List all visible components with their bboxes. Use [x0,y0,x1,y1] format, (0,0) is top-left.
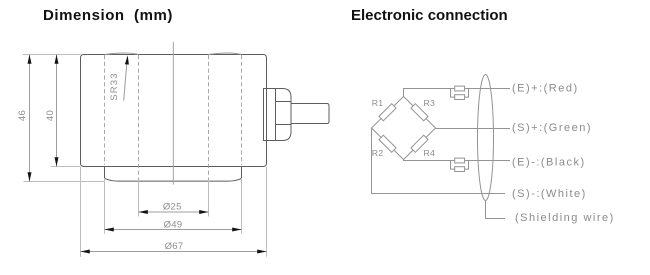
svg-text:Ø25: Ø25 [163,202,182,213]
svg-text:Ø49: Ø49 [164,220,183,231]
dimension line 46 [29,55,31,182]
spherical top surface arc right (SR33) [208,53,242,55]
svg-text:R3: R3 [424,98,436,108]
hidden line x=241.5 [241,55,243,165]
hidden line x=104.5 [104,55,106,165]
wire S- : left corner down then right [372,128,506,194]
gland inner line top [276,101,292,103]
svg-text:(Shielding wire): (Shielding wire) [515,212,615,224]
dimension line dia67 [81,251,267,253]
gland inner line bottom [276,124,292,126]
compensation resistor pair on E+ line [451,89,469,98]
resistor R2 body [379,135,396,152]
spherical top surface arc left (SR33) [105,53,139,55]
svg-text:Dimension (mm): Dimension (mm) [43,7,173,24]
hidden line x=208.5 [208,55,210,180]
extension line top (for 46/40) [23,54,81,56]
wire E- : bottom corner to right [404,160,511,161]
wire E+ : top corner up then right [404,89,511,97]
svg-text:SR33: SR33 [109,72,120,101]
cable gland plate [264,89,276,141]
extension line at body bottom (for 40) [51,166,81,168]
wire S+ : right corner to right [436,128,511,130]
dimension extension lines [23,55,267,257]
dimension line dia49 [105,229,242,231]
load cell body outline [81,55,267,167]
svg-text:(S)+:(Green): (S)+:(Green) [512,122,592,134]
svg-text:Electronic connection: Electronic connection [351,7,508,24]
SR33 leader line with arrow [124,58,128,101]
bridge diamond [372,97,436,160]
cable gland nut (rounded) [276,89,292,141]
extension line at flange bottom (for 46) [24,181,105,183]
svg-text:46: 46 [17,110,28,121]
svg-text:R1: R1 [372,98,384,108]
svg-text:40: 40 [45,110,56,121]
svg-text:(S)-:(White): (S)-:(White) [512,188,587,200]
extension line right flange side down (for dia49) [241,178,243,234]
bottom flange (loading base) [105,167,242,182]
extension line left body side down (for dia67) [80,167,82,257]
hidden line x=138.5 [138,55,140,180]
shield wire from ellipse bottom [486,200,506,218]
resistor R3 body [411,104,428,121]
extension line right body side down (for dia67) [266,167,268,257]
extension line left dia25 down [138,180,140,217]
cable stub [291,104,329,124]
dimension line 40 [56,55,58,167]
cable ellipse [478,75,494,201]
extension line right dia25 down [208,180,210,217]
compensation resistor pair on E- line [451,161,469,170]
center line [172,42,174,185]
resistor R4 body [411,135,428,152]
svg-text:Ø67: Ø67 [165,241,184,252]
extension line left flange side down (for dia49) [104,178,106,234]
svg-text:(E)-:(Black): (E)-:(Black) [512,157,586,169]
svg-text:R2: R2 [372,148,384,158]
dimension line dia25 [139,211,209,213]
svg-text:R4: R4 [424,148,436,158]
resistor R1 body [379,104,396,121]
svg-text:(E)+:(Red): (E)+:(Red) [512,83,579,95]
